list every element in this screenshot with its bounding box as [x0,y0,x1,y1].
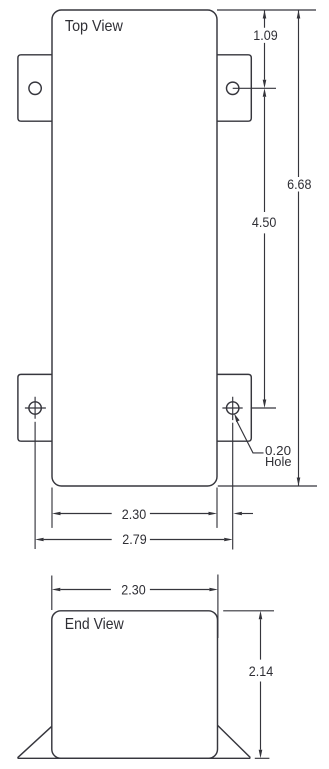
svg-text:4.50: 4.50 [252,215,277,230]
dimension 4.50 line [264,97,266,400]
mounting tab top-left [18,55,52,121]
dimension 1.09 line [264,10,266,80]
center mark bottom-left hole [25,397,46,419]
svg-text:2.30: 2.30 [121,583,146,598]
flange right [218,725,251,757]
extension line from bottom-right hole [232,423,234,550]
leader arrow 0.20 hole [234,414,239,423]
centerline through top-right hole [233,87,276,89]
svg-text:2.14: 2.14 [249,664,274,679]
extension line body right bottom [216,488,218,528]
extension line bottom right [218,485,317,487]
dimension 2.14 line [260,619,262,750]
extension line body left bottom [51,488,53,528]
extension line top [217,9,316,11]
hole bottom-right [227,402,239,414]
hole top-left [29,82,41,94]
svg-text:2.30: 2.30 [122,507,147,522]
hole top-right [227,82,239,94]
mounting tab bottom-left [18,374,52,441]
dimension 2.30 end view [60,589,209,591]
dimension 2.79 [44,539,225,541]
flange bottom line [18,757,251,759]
svg-text:1.09: 1.09 [253,28,278,43]
outside arrow at hole extension [233,512,242,516]
svg-text:2.79: 2.79 [122,532,147,547]
center mark bottom-right hole [222,397,242,420]
extension line from bottom-left hole [34,422,36,549]
svg-text:6.68: 6.68 [287,177,312,192]
svg-text:End View: End View [65,616,124,633]
flange left [18,726,52,758]
end view body [52,611,218,759]
end view: extension line left [51,576,53,611]
extension line right of bottom-right hole [251,407,276,409]
mounting tab top-right [217,55,251,121]
end view: extension line right [217,575,219,639]
extension line end view bottom right [255,757,270,759]
svg-text:Hole: Hole [265,455,292,469]
dimension 6.68 line [298,10,300,485]
hole bottom-left [29,402,41,414]
top view body [52,10,217,486]
dimension 2.30 top view [61,513,209,515]
svg-text:Top View: Top View [65,18,123,35]
extension line end view top right [223,610,274,612]
mounting tab bottom-right [217,374,251,441]
